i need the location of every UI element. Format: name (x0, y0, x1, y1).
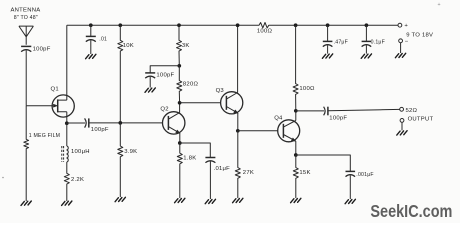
svg-text:2.2K: 2.2K (71, 177, 84, 183)
svg-text:100pF: 100pF (329, 116, 347, 122)
svg-text:.01: .01 (99, 37, 107, 43)
svg-text:27K: 27K (243, 170, 254, 176)
capacitor 100pF (interstage coupling) (85, 118, 109, 133)
svg-text:.47μF: .47μF (334, 39, 348, 45)
resistor 1.8K (177, 143, 196, 198)
ground (output) (397, 131, 407, 135)
resistor 820 ohm (177, 66, 199, 103)
capacitor 100pF (output coupling) (324, 107, 348, 122)
svg-text:ANTENNA: ANTENNA (11, 7, 41, 13)
wire: Q3 emitter node to Q4 base (238, 130, 278, 132)
svg-text:52Ω: 52Ω (406, 108, 418, 114)
node: rail junction .47uF (326, 23, 330, 27)
ground (27K) (233, 198, 243, 202)
svg-text:SeekIC.com: SeekIC.com (370, 201, 452, 221)
wire: output cap to output terminal (328, 109, 400, 110)
resistor 2.2K (64, 162, 84, 201)
resistor 27K (235, 131, 254, 198)
wire: top supply rail with 100 ohm series resistor (67, 23, 398, 28)
svg-text:15K: 15K (299, 170, 310, 176)
transistor Q3 (216, 25, 243, 131)
svg-text:Q2: Q2 (160, 106, 168, 112)
svg-text:Q3: Q3 (216, 88, 225, 94)
wire: junction to bypass cap (150, 66, 179, 73)
ground (3.9K) (115, 197, 125, 201)
node: base node junction (118, 121, 122, 125)
resistor 3K (177, 25, 190, 66)
resistor 100 ohm (Q4 collector load) (293, 25, 315, 111)
node: Q4 collector junction (294, 109, 298, 113)
resistor 15K (293, 155, 310, 198)
node: rail junction 100 ohm vertical (294, 23, 298, 27)
node: Q3 emitter junction (236, 129, 240, 133)
wire: output ground terminal down (401, 122, 403, 130)
capacitor .01 (input bypass) (86, 25, 107, 54)
resistor 1 MEG FILM (24, 106, 60, 201)
svg-text:.01μF: .01μF (214, 166, 231, 172)
ground (15K) (291, 198, 301, 202)
wire: source node to series cap (67, 122, 85, 124)
svg-text:9 TO 18V: 9 TO 18V (406, 33, 433, 39)
capacitor 100pF (antenna coupling) (21, 46, 51, 52)
svg-text:100μH: 100μH (71, 149, 90, 155)
svg-text:OUTPUT: OUTPUT (408, 117, 434, 123)
transistor Q1 (FET) (51, 87, 75, 118)
node: Q4 emitter junction (294, 153, 298, 157)
wire: emitter node to .001uF cap (296, 155, 351, 171)
svg-text:0.1μF: 0.1μF (371, 39, 385, 45)
terminal: supply plus (398, 23, 402, 27)
node: Q2 emitter junction (178, 141, 182, 145)
svg-text:820Ω: 820Ω (183, 82, 199, 88)
terminal: supply minus (399, 39, 403, 43)
svg-text:100pF: 100pF (33, 47, 51, 53)
antenna (11, 7, 41, 45)
ground (2.2K) (62, 201, 72, 205)
svg-text:Q1: Q1 (51, 87, 59, 93)
wire: emitter node to .01uF cap (180, 143, 211, 157)
ground (.01uF) (205, 199, 215, 203)
ground (.01 cap) (86, 54, 96, 58)
ground (1.8K) (175, 198, 185, 202)
node: Q1 source junction (65, 121, 69, 125)
ground (bypass cap) (145, 88, 155, 92)
capacitor .01uF (emitter bypass) (205, 158, 230, 200)
ground (1 MEG) (21, 201, 31, 205)
capacitor 100pF (base bypass) (145, 73, 174, 88)
svg-text:+: + (438, 2, 441, 8)
svg-text:Q4: Q4 (274, 115, 283, 121)
ground (supply minus) (395, 53, 405, 57)
node: rail junction for .01 cap (89, 23, 93, 27)
node: rail junction 0.1uF (365, 23, 369, 27)
terminal: output hot (400, 107, 404, 111)
node: 3K bottom junction (177, 64, 181, 68)
svg-text:100pF: 100pF (156, 73, 174, 79)
svg-text:100Ω: 100Ω (299, 86, 315, 92)
inductor 100uH with core (62, 123, 90, 162)
wire: antenna down to gate node (25, 50, 27, 105)
capacitor .47uF (supply filter) (323, 25, 348, 53)
resistor 3.9K (118, 123, 138, 197)
svg-text:100pF: 100pF (91, 127, 109, 133)
wire: minus terminal to ground (400, 43, 402, 53)
capacitor .001uF (346, 171, 374, 199)
svg-text:1 MEG FILM: 1 MEG FILM (29, 133, 60, 139)
wire: gate node to Q1 gate (26, 105, 53, 107)
wire: Q1 source down to node (66, 112, 68, 123)
node: rail junction Q3 collector (236, 23, 240, 27)
noise speck left (2, 177, 4, 179)
ground (.47uF) (322, 54, 332, 58)
terminal: output ground (400, 119, 404, 123)
wire: Q1 drain vertical (rail corner down to Q1) (66, 25, 68, 100)
svg-text:+: + (404, 23, 408, 29)
svg-text:1.8K: 1.8K (183, 156, 196, 162)
svg-text:−: − (405, 39, 409, 45)
node: Q2 collector junction (178, 101, 182, 105)
wire: cap to Q2 base (89, 122, 163, 124)
svg-text:3K: 3K (182, 43, 190, 49)
node: rail junction for 10K (118, 23, 122, 27)
resistor 10K (118, 25, 134, 123)
transistor Q4 (274, 111, 300, 155)
capacitor 0.1uF (supply bypass) (362, 25, 385, 53)
svg-text:100Ω: 100Ω (257, 29, 273, 35)
svg-text:.001μF: .001μF (356, 172, 373, 178)
svg-text:10K: 10K (123, 43, 134, 49)
transistor Q2 (160, 103, 185, 143)
wire: collector node to output cap (296, 110, 324, 112)
svg-text:3.9K: 3.9K (124, 149, 137, 155)
ground (.001uF) (345, 199, 355, 203)
node: rail junction for 3K (177, 23, 181, 27)
ground (0.1uF) (361, 54, 371, 58)
svg-text:8" TO 48": 8" TO 48" (14, 15, 38, 21)
wire: Q2 collector to Q3 base (180, 102, 221, 104)
